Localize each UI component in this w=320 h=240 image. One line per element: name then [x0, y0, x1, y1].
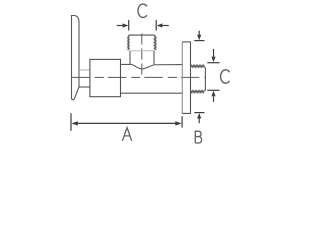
- nipple end face: [204, 67, 205, 90]
- nipple bottom serration: [191, 91, 205, 93]
- thread bottom face (gray): [129, 50, 155, 52]
- dimension C top: right arrow: [162, 25, 169, 27]
- pipe left bottom edge: [79, 86, 90, 88]
- dimension B: top tick: [194, 40, 204, 42]
- valve body: [90, 59, 121, 96]
- label B: [195, 131, 201, 143]
- outlet pipe top edge with riser intersection dip: [121, 64, 183, 69]
- nipple top serration: [191, 65, 205, 67]
- horizontal centerline: [71, 76, 205, 78]
- dimension A right arrowhead: [175, 121, 181, 125]
- wall flange: [72, 16, 80, 100]
- label A: [122, 128, 131, 141]
- dimension C right: top arrow: [213, 49, 215, 57]
- pipe left top edge: [79, 69, 90, 71]
- dimension A: left extension line: [70, 113, 72, 131]
- riser right side: [153, 51, 155, 65]
- dimension B: top arrow: [198, 31, 200, 35]
- outlet pipe bottom edge: [121, 92, 183, 94]
- dimension C right: top extension tick: [207, 62, 219, 64]
- dimension C top: right extension tick: [155, 20, 157, 31]
- vertical centerline of top connector: [141, 34, 143, 76]
- threaded connector top outline: [128, 35, 156, 37]
- threaded connector left serration: [128, 37, 130, 51]
- dimension C right: bottom arrow: [213, 96, 215, 102]
- label C right: [221, 70, 230, 83]
- label C top: [138, 4, 147, 17]
- dimension B: bottom tick: [194, 112, 204, 114]
- dimension A left arrowhead: [71, 121, 77, 125]
- dimension A line: [77, 122, 176, 124]
- dimension C top: left arrow: [117, 25, 124, 27]
- dimension C right: bottom extension tick: [207, 89, 219, 91]
- wall plate left edge (light): [181, 42, 183, 114]
- dimension A: right extension line: [181, 116, 183, 127]
- dimension C top: left extension tick: [128, 20, 130, 31]
- threaded connector right serration: [154, 37, 156, 51]
- wall plate outline: [182, 42, 190, 114]
- dimension B: bottom arrow: [198, 118, 200, 123]
- riser left side: [129, 51, 131, 65]
